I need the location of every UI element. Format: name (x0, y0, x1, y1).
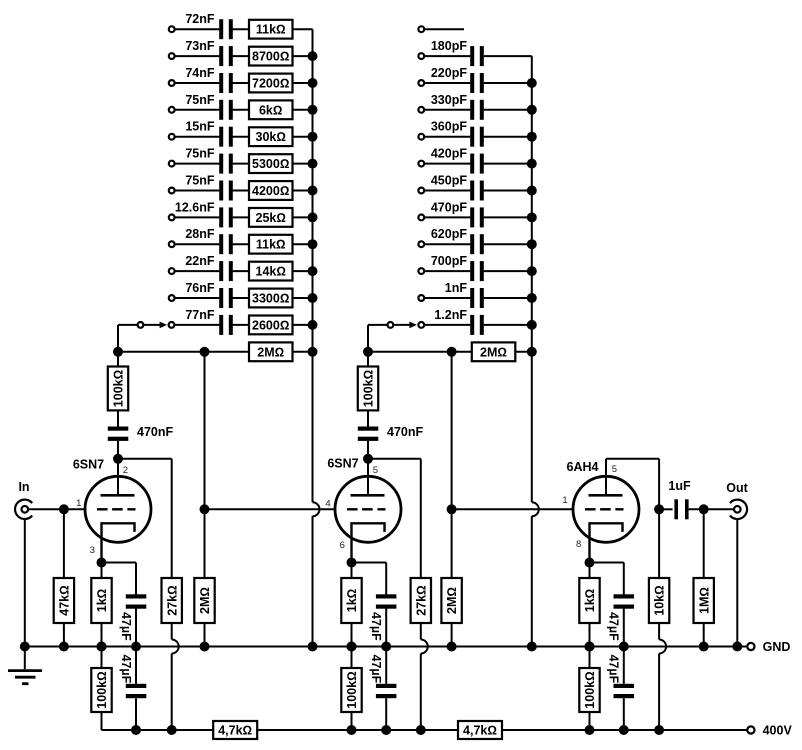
terminal J7 (left network row 7) (169, 188, 175, 194)
svg-text:4200Ω: 4200Ω (252, 184, 289, 198)
wire input to grid (28, 508, 85, 510)
junction node plate 1 (113, 454, 123, 464)
wire cathode to bypass cap (352, 562, 387, 564)
svg-text:1kΩ: 1kΩ (345, 589, 359, 613)
wire (175, 28, 220, 30)
junction node (bus2 row 7) (527, 186, 537, 196)
junction node (97, 642, 107, 652)
wire (589, 647, 591, 669)
wire bus2 (right network common) (531, 56, 533, 502)
svg-text:7200Ω: 7200Ω (252, 77, 289, 91)
wire (484, 163, 532, 165)
resistor 2M&#8486; R24 (grid leak 3) (441, 578, 461, 623)
capacitor 28nF C9 (219, 234, 223, 254)
wire (135, 647, 137, 684)
svg-text:6SN7: 6SN7 (73, 458, 104, 472)
junction node (bus1 row 3) (308, 78, 318, 88)
wire (623, 647, 625, 684)
switch S1 pole (138, 322, 144, 328)
junction node (416, 725, 426, 735)
capacitor 180pF C13 (470, 46, 474, 66)
wire output ground tail (736, 519, 738, 647)
wire (204, 623, 206, 647)
wire (175, 297, 220, 299)
junction node (347, 725, 357, 735)
input jack In (15, 500, 32, 519)
svg-text:620pF: 620pF (431, 227, 467, 241)
wire (424, 55, 470, 57)
wire (484, 190, 532, 192)
wire (351, 623, 353, 647)
wire (293, 163, 313, 165)
capacitor 360pF C16 (470, 127, 474, 147)
capacitor 47&#181;F C25 (cathode bypass 1) (126, 594, 147, 598)
svg-text:6AH4: 6AH4 (567, 460, 599, 474)
wire bus1 hop over grid wire (313, 502, 320, 516)
svg-text:11kΩ: 11kΩ (256, 238, 286, 252)
svg-text:2MΩ: 2MΩ (257, 345, 284, 359)
resistor 8700&#8486; R2 (249, 47, 293, 66)
wire (424, 243, 470, 245)
resistor 27k&#8486; R23 (anode load 2) (411, 578, 431, 623)
svg-text:76nF: 76nF (185, 281, 215, 295)
switch S1 wiper wire (118, 324, 138, 326)
wire (589, 563, 591, 579)
wire (367, 410, 369, 426)
terminal K11 (right network row 11) (418, 295, 424, 301)
output jack Out (730, 500, 747, 519)
wire 400V rail segment 1 (102, 729, 214, 731)
capacitor 420pF C17 (470, 154, 474, 174)
svg-text:360pF: 360pF (431, 120, 467, 134)
capacitor 1uF C32 (output) (674, 499, 678, 519)
svg-text:GND: GND (763, 640, 791, 654)
wire (175, 82, 220, 84)
svg-text:47µF: 47µF (369, 612, 383, 641)
svg-text:47kΩ: 47kΩ (58, 585, 72, 615)
svg-text:1.2nF: 1.2nF (434, 308, 467, 322)
tube V3 anode (589, 494, 623, 497)
svg-text:2MΩ: 2MΩ (198, 587, 212, 614)
svg-text:1nF: 1nF (445, 281, 468, 295)
wire (175, 109, 220, 111)
wire plate 1 to load (118, 458, 172, 460)
wire (484, 297, 532, 299)
resistor 14k&#8486; R10 (249, 262, 293, 281)
capacitor 74nF C3 (219, 73, 223, 93)
capacitor 22nF C10 (219, 261, 223, 281)
junction node (bus2 row 9) (527, 239, 537, 249)
wire (623, 698, 625, 730)
junction node (131, 642, 141, 652)
junction node (bus2 row 6) (527, 159, 537, 169)
wire (484, 324, 532, 326)
resistor 100k&#8486; R20 (bleeder 1) (91, 668, 111, 712)
capacitor 75nF C6 (219, 154, 223, 174)
wire anode load to 400V (171, 623, 173, 640)
capacitor 470nF C24 (coupling 1) (108, 427, 129, 431)
svg-text:1: 1 (76, 498, 81, 509)
wire (175, 136, 220, 138)
junction node (bus2 row 12) (527, 320, 537, 330)
svg-text:28nF: 28nF (185, 227, 215, 241)
capacitor 47&#181;F C26 (decoupling 1) (126, 684, 147, 688)
resistor 2M&#8486; R13 (249, 342, 293, 361)
wire node A2 to grid 3 (451, 352, 453, 578)
junction node (bus1 row 12) (308, 320, 318, 330)
wire (117, 352, 119, 367)
resistor 30k&#8486; R5 (249, 127, 293, 146)
resistor 100k&#8486; R28 (bleeder 3) (579, 668, 599, 712)
svg-text:1kΩ: 1kΩ (583, 589, 597, 613)
wire (101, 563, 103, 579)
junction node (732, 642, 742, 652)
terminal K7 (right network row 7) (418, 188, 424, 194)
svg-text:Out: Out (726, 481, 748, 495)
tube V2 6SN7 envelope (335, 476, 401, 542)
wire anode load to 400V (658, 623, 660, 640)
resistor 2M&#8486; R14 (472, 342, 516, 361)
junction node (200, 642, 210, 652)
capacitor 470nF C27 (coupling 2) (358, 427, 379, 431)
junction node (bus1 row 7) (308, 186, 318, 196)
terminal J6 (left network row 6) (169, 161, 175, 167)
resistor 5300&#8486; R6 (249, 154, 293, 173)
junction node (bus1 / GND rail) (308, 642, 318, 652)
junction node (bus1 row 10) (308, 266, 318, 276)
svg-text:400V: 400V (763, 723, 793, 737)
svg-text:74nF: 74nF (185, 66, 215, 80)
wire cathode to bypass cap (102, 562, 137, 564)
capacitor 12.6nF C8 (219, 207, 223, 227)
svg-text:15nF: 15nF (185, 120, 215, 134)
wire (293, 190, 313, 192)
capacitor 470pF C19 (470, 207, 474, 227)
wire (175, 163, 220, 165)
terminal J4 (left network row 4) (169, 107, 175, 113)
svg-text:14kΩ: 14kΩ (256, 265, 286, 279)
junction node (585, 725, 595, 735)
junction node A2 (363, 347, 373, 357)
wire (293, 216, 313, 218)
tube V2 cathode (352, 523, 385, 562)
capacitor 47&#181;F C31 (decoupling 3) (614, 684, 635, 688)
junction node (bus1 row 9) (308, 239, 318, 249)
junction node (bus2 row 11) (527, 293, 537, 303)
wire (233, 190, 249, 192)
terminal J9 (left network row 9) (169, 241, 175, 247)
terminal J10 (left network row 10) (169, 268, 175, 274)
wire (293, 243, 313, 245)
junction node (bus1 row 5) (308, 132, 318, 142)
svg-text:1uF: 1uF (668, 479, 691, 493)
junction node (bus1 / 2M row) (308, 347, 318, 357)
wire (175, 216, 220, 218)
svg-text:77nF: 77nF (185, 308, 215, 322)
wire (424, 163, 470, 165)
capacitor 47&#181;F C30 (cathode bypass 3) (614, 594, 635, 598)
wire (351, 563, 353, 579)
wire (293, 28, 313, 30)
wire (385, 698, 387, 730)
junction node (59, 642, 69, 652)
capacitor 72nF C1 (219, 19, 223, 39)
wire grid wire stage 3 (452, 508, 573, 510)
wire (233, 297, 249, 299)
wire (293, 136, 313, 138)
wire cathode to bypass cap (590, 562, 624, 564)
wire (174, 324, 219, 326)
wire (351, 647, 353, 669)
wire bus1 (left network common) (312, 29, 314, 502)
wire (589, 623, 591, 647)
wire (703, 509, 705, 578)
svg-text:180pF: 180pF (431, 39, 467, 53)
junction node grid 3 (447, 504, 457, 514)
capacitor 75nF C4 (219, 100, 223, 120)
junction node (bus1 row 6) (308, 159, 318, 169)
capacitor 1.2nF C23 (470, 315, 474, 335)
svg-text:2: 2 (123, 465, 128, 476)
resistor 100k&#8486; R25 (bleeder 2) (341, 668, 361, 712)
resistor 4,7k&#8486; R31 (supply dropper 2) (458, 721, 502, 739)
svg-text:100kΩ: 100kΩ (362, 370, 376, 407)
junction node anode out (654, 504, 664, 514)
wire (117, 441, 119, 495)
wire (135, 698, 137, 730)
wire (233, 216, 249, 218)
wire node A2 to switch riser (367, 325, 369, 352)
svg-text:4,7kΩ: 4,7kΩ (463, 724, 497, 738)
svg-text:6SN7: 6SN7 (327, 457, 358, 471)
terminal K6 (right network row 6) (418, 161, 424, 167)
terminal K9 (right network row 9) (418, 241, 424, 247)
wire grid wire stage 2 (205, 508, 336, 510)
wire anode load to 400V (420, 623, 422, 640)
junction node (bus1 row 4) (308, 105, 318, 115)
wire (351, 712, 353, 730)
terminal K10 (right network row 10) (418, 268, 424, 274)
terminal J11 (left network row 11) (169, 295, 175, 301)
svg-text:3300Ω: 3300Ω (252, 292, 289, 306)
junction node (bus2 row 3) (527, 78, 537, 88)
junction node output (699, 504, 709, 514)
junction node A1 (113, 347, 123, 357)
junction node grid 2 (200, 504, 210, 514)
junction node A2-branch (447, 347, 457, 357)
wire (424, 190, 470, 192)
tube V1 anode (101, 494, 135, 497)
wire (63, 509, 65, 578)
svg-text:47µF: 47µF (607, 612, 621, 641)
wire (233, 82, 249, 84)
junction node (bus1 row 11) (308, 293, 318, 303)
junction node (585, 642, 595, 652)
wire plate 3 to load (605, 459, 607, 496)
wire hop over GND rail (172, 640, 179, 654)
wire (424, 324, 470, 326)
wire (424, 82, 470, 84)
terminal GND (747, 643, 754, 650)
capacitor 220pF C14 (470, 73, 474, 93)
wire (424, 109, 470, 111)
wire node A2 row (368, 351, 472, 353)
resistor 2M&#8486; R19 (grid leak 2) (194, 578, 214, 623)
capacitor 15nF C5 (219, 127, 223, 147)
capacitor 77nF C12 (219, 315, 223, 335)
svg-text:In: In (18, 480, 29, 494)
svg-text:100kΩ: 100kΩ (112, 370, 126, 407)
tube V1 grid (dashed) (97, 508, 108, 510)
svg-text:8: 8 (576, 539, 581, 550)
wire plate 2 to load (368, 458, 421, 460)
wire (703, 623, 705, 647)
junction node (bus2 row 10) (527, 266, 537, 276)
resistor 10k&#8486; R27 (anode load 3) (649, 578, 669, 623)
wire (135, 609, 137, 647)
wire (63, 623, 65, 647)
resistor 1k&#8486; R26 (cathode 3) (579, 578, 599, 623)
wire (233, 136, 249, 138)
terminal J1 (left network row 1) (169, 26, 175, 32)
svg-text:470pF: 470pF (431, 200, 467, 214)
resistor 11k&#8486; R1 (249, 20, 293, 39)
terminal J12 (left network row 12) (169, 322, 175, 328)
svg-text:100kΩ: 100kΩ (345, 671, 359, 708)
svg-text:2600Ω: 2600Ω (252, 318, 289, 332)
svg-text:330pF: 330pF (431, 93, 467, 107)
wire (293, 270, 313, 272)
resistor 4200&#8486; R7 (249, 181, 293, 200)
wire (175, 190, 220, 192)
resistor 100k&#8486; R15 (grid stopper 1) (108, 367, 128, 411)
junction node A1-branch (200, 347, 210, 357)
capacitor 620pF C20 (470, 234, 474, 254)
svg-text:2MΩ: 2MΩ (445, 587, 459, 614)
svg-text:75nF: 75nF (185, 93, 215, 107)
junction node input (59, 504, 69, 514)
resistor 1k&#8486; R22 (cathode 2) (341, 578, 361, 623)
wire (451, 623, 453, 647)
svg-text:22nF: 22nF (185, 254, 215, 268)
tube V3 cathode (590, 523, 623, 562)
junction node (654, 725, 664, 735)
junction node (131, 725, 141, 735)
capacitor 330pF C15 (470, 100, 474, 120)
capacitor 700pF C21 (470, 261, 474, 281)
wire (484, 136, 532, 138)
terminal K3 (right network row 3) (418, 80, 424, 86)
svg-text:5: 5 (373, 465, 378, 476)
resistor 6k&#8486; R4 (249, 100, 293, 119)
resistor 27k&#8486; R18 (anode load 1) (162, 578, 182, 623)
tube V1 cathode (102, 523, 135, 562)
svg-text:27kΩ: 27kΩ (165, 585, 179, 615)
terminal K5 (right network row 5) (418, 134, 424, 140)
wire (293, 351, 313, 353)
svg-text:4: 4 (325, 498, 330, 509)
capacitor 450pF C18 (470, 181, 474, 201)
capacitor 73nF C2 (219, 46, 223, 66)
junction node (347, 642, 357, 652)
junction node (381, 642, 391, 652)
junction node (381, 725, 391, 735)
wire anode to output cap (659, 508, 673, 510)
wire (233, 109, 249, 111)
capacitor 47&#181;F C29 (decoupling 2) (376, 684, 397, 688)
svg-text:47µF: 47µF (607, 655, 621, 684)
junction node (bus1 row 8) (308, 212, 318, 222)
wire (484, 216, 532, 218)
capacitor 1nF C22 (470, 288, 474, 308)
svg-text:6: 6 (340, 540, 345, 551)
wire node A1 row (118, 351, 249, 353)
junction node (bus2 row 4) (527, 105, 537, 115)
junction node (167, 725, 177, 735)
svg-text:5300Ω: 5300Ω (252, 157, 289, 171)
junction node cathode 3 (585, 558, 595, 568)
svg-text:4,7kΩ: 4,7kΩ (218, 724, 252, 738)
junction node (bus1 row 2) (308, 51, 318, 61)
wire (424, 136, 470, 138)
resistor 1k&#8486; R17 (cathode 1) (91, 578, 111, 623)
svg-text:2MΩ: 2MΩ (480, 345, 507, 359)
svg-text:420pF: 420pF (431, 147, 467, 161)
svg-text:47µF: 47µF (369, 655, 383, 684)
wire (689, 508, 734, 510)
svg-text:75nF: 75nF (185, 174, 215, 188)
switch S2 pole (388, 322, 394, 328)
capacitor 47&#181;F C28 (cathode bypass 2) (376, 594, 397, 598)
wire (484, 55, 532, 57)
wire (623, 609, 625, 647)
svg-text:5: 5 (612, 464, 617, 475)
svg-text:12.6nF: 12.6nF (175, 200, 215, 214)
junction node (97, 642, 107, 652)
svg-text:470nF: 470nF (137, 425, 173, 439)
wire hop over GND rail (659, 640, 666, 654)
svg-text:6kΩ: 6kΩ (259, 103, 283, 117)
tube V3 6AH4 envelope (573, 476, 639, 542)
wire (484, 243, 532, 245)
wire node A1 to switch riser (117, 325, 119, 352)
wire stub (424, 28, 464, 30)
svg-text:470nF: 470nF (387, 425, 423, 439)
wire (424, 270, 470, 272)
wire (233, 28, 249, 30)
tube V2 anode (351, 494, 385, 497)
svg-text:27kΩ: 27kΩ (414, 585, 428, 615)
junction node (699, 642, 709, 652)
wire input ground tail (24, 519, 26, 669)
junction node (20, 642, 30, 652)
terminal J2 (left network row 2) (169, 53, 175, 59)
wire (424, 216, 470, 218)
svg-text:450pF: 450pF (431, 174, 467, 188)
terminal K8 (right network row 8) (418, 215, 424, 221)
junction node (bus2 / GND rail) (527, 642, 537, 652)
wire (293, 55, 313, 57)
svg-text:10kΩ: 10kΩ (653, 585, 667, 615)
wire (293, 324, 313, 326)
tube V1 6SN7 envelope (85, 476, 151, 542)
wire hop over GND rail (421, 640, 428, 654)
resistor 100k&#8486; R21 (grid stopper 2) (358, 367, 378, 411)
wire (424, 297, 470, 299)
resistor 11k&#8486; R9 (249, 235, 293, 254)
terminal 400V (747, 726, 754, 733)
wire (293, 109, 313, 111)
